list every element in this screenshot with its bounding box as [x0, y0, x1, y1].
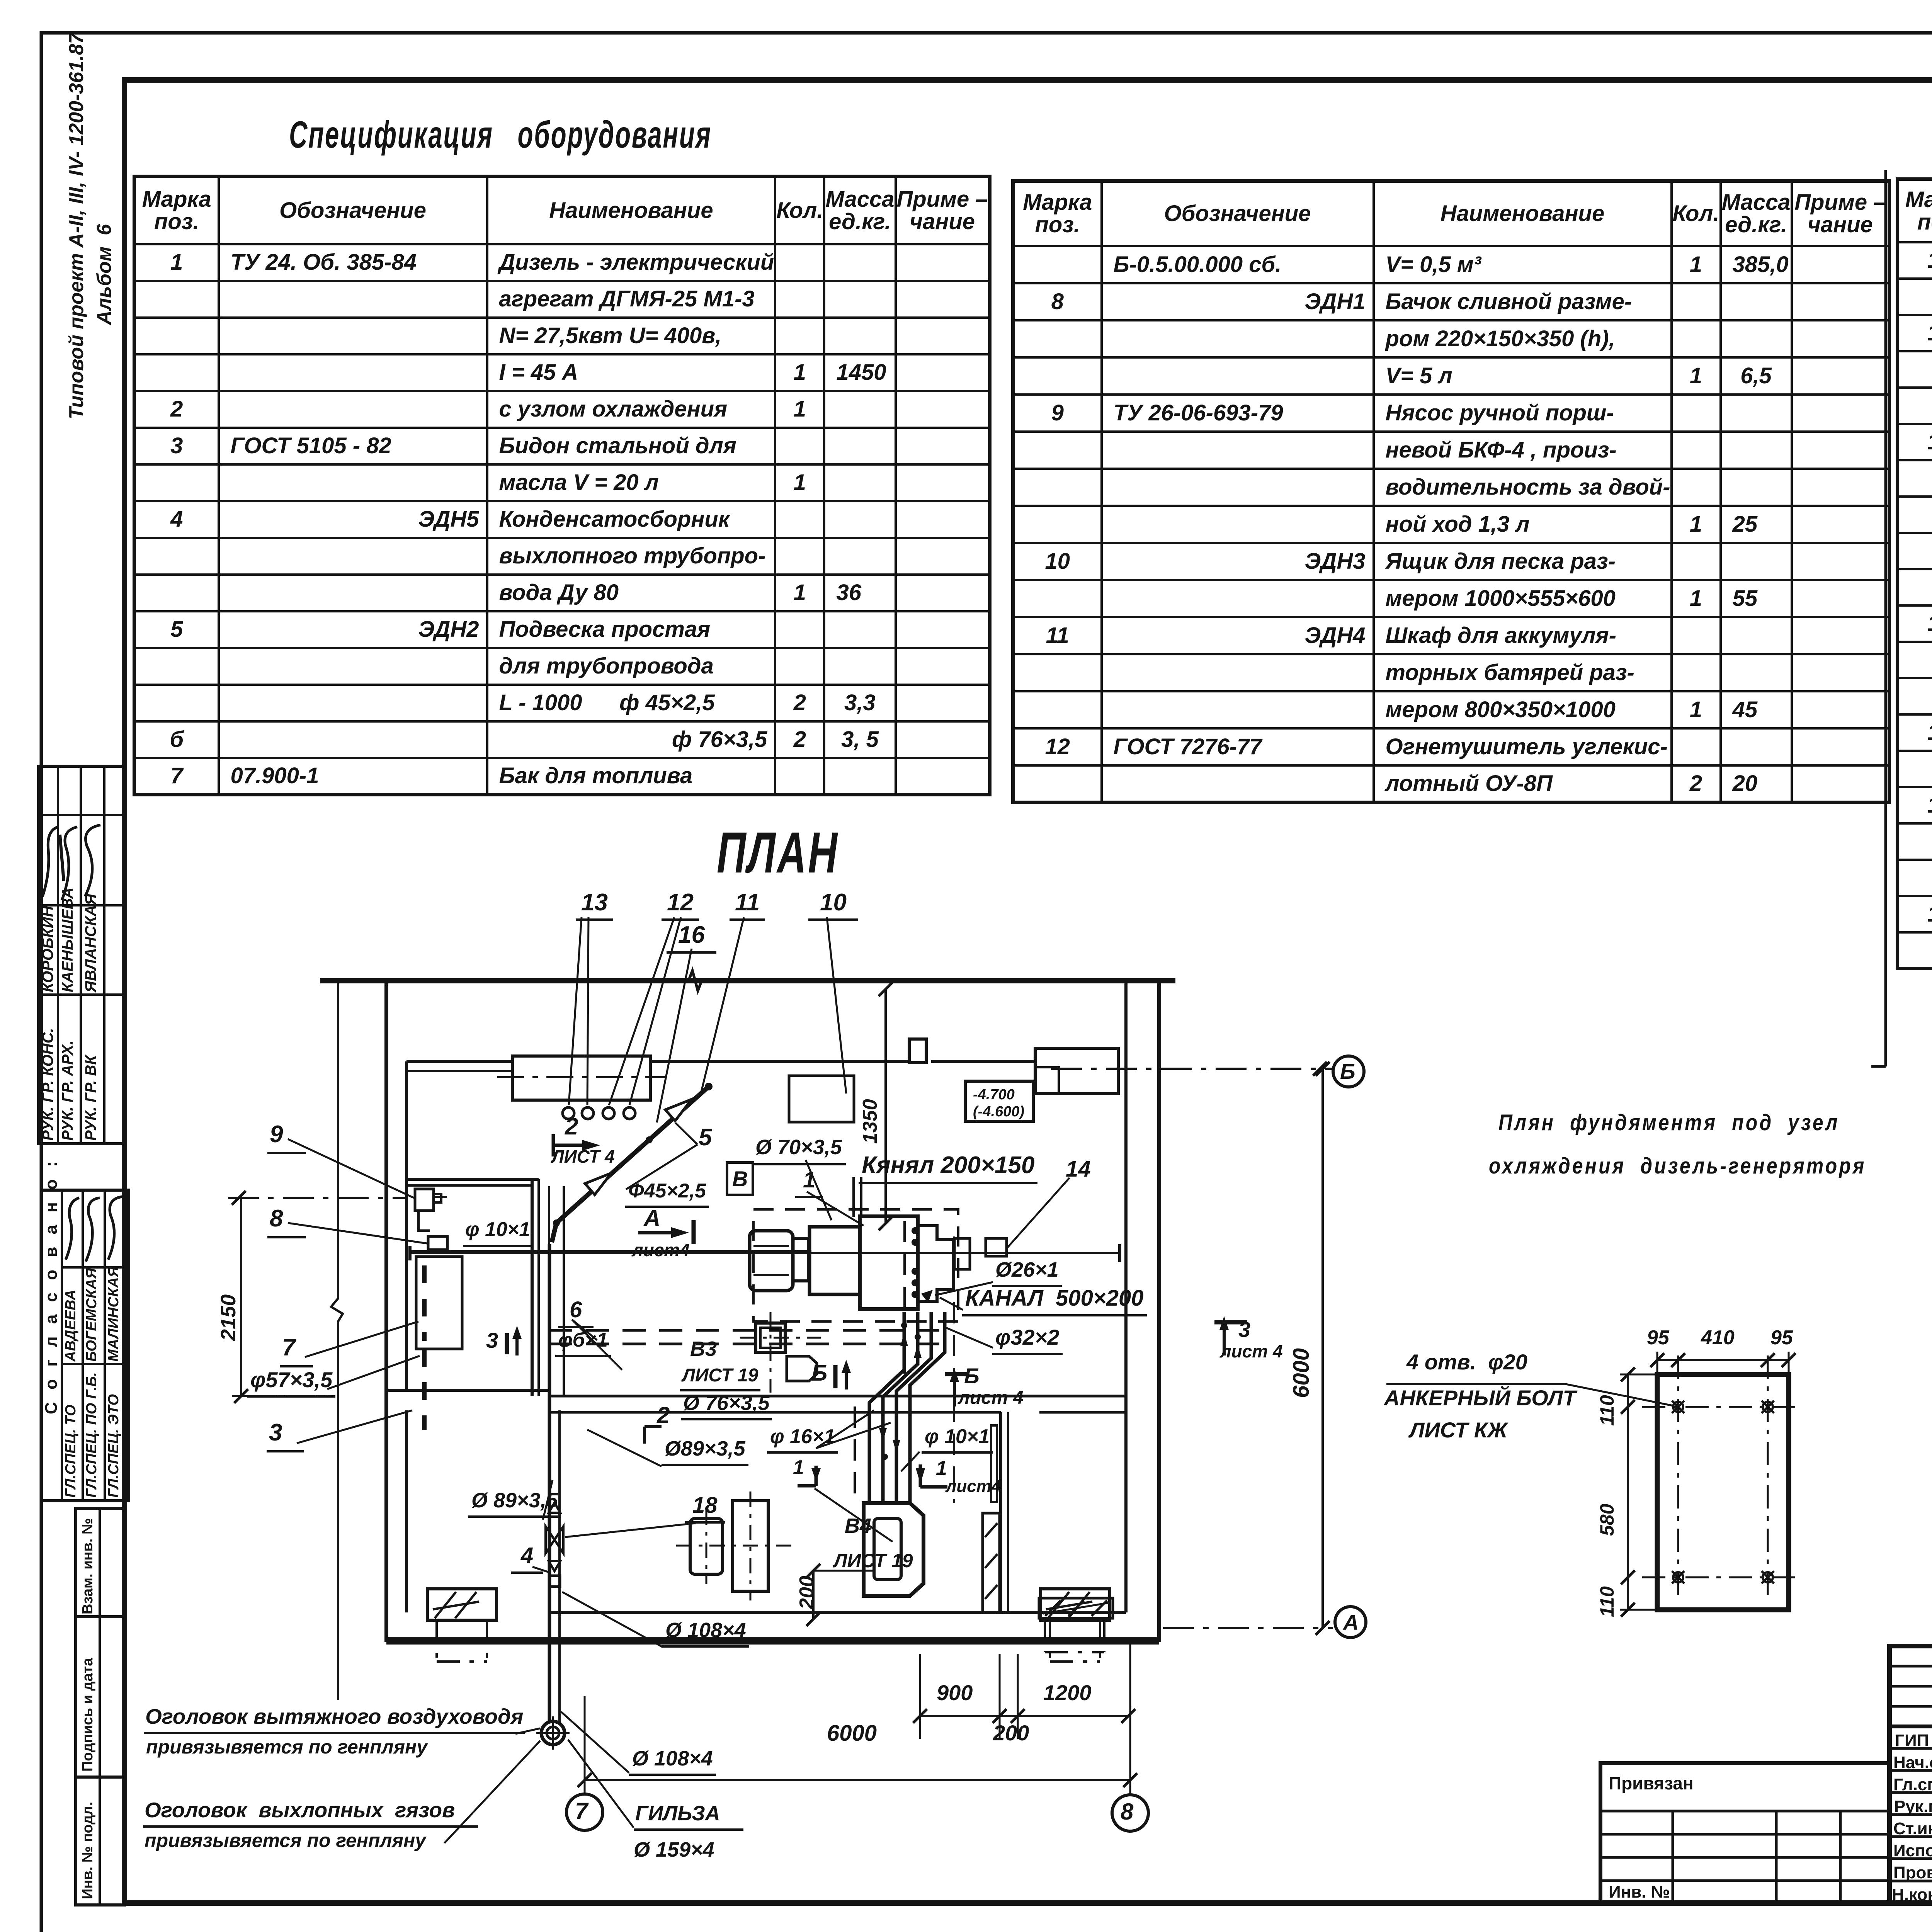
pump B3	[756, 1323, 785, 1352]
wall: top exterior	[320, 978, 1175, 983]
wall: interior horizontal	[549, 1395, 1126, 1398]
callout numbers top	[576, 889, 613, 921]
niche in top wall	[512, 1056, 650, 1100]
muffler device 2	[864, 1503, 923, 1596]
sheet title: Спецификация оборудования	[289, 113, 712, 156]
approvals table	[41, 1190, 129, 1501]
axis circle 8	[1112, 1795, 1148, 1831]
dim 200 vertical at wall	[812, 1571, 815, 1619]
leader ф70x3,5	[806, 1160, 832, 1220]
wall: left exterior	[384, 981, 388, 1642]
rotated dims	[859, 1099, 882, 1144]
flow arrows on diagonal	[665, 1099, 692, 1121]
leader 9	[288, 1139, 414, 1198]
leader callout 12	[609, 917, 674, 1105]
axis circle Б	[1333, 1056, 1364, 1087]
section marker 3 up (left)	[505, 1333, 509, 1354]
fixture 9 (hydrant)	[415, 1189, 434, 1211]
flow arrows on risers	[879, 1333, 922, 1453]
section marker Б (left)	[833, 1365, 838, 1388]
wall: left room	[406, 1178, 539, 1181]
window with hatches	[983, 1513, 1000, 1612]
axis line to circle Б	[1051, 1068, 1332, 1070]
leader 2	[815, 1488, 893, 1542]
chimney sleeve circles	[541, 1721, 565, 1745]
duct below grille	[1045, 1618, 1104, 1652]
plan title	[717, 819, 839, 886]
niche right with step	[1035, 1048, 1118, 1094]
vent niche (callout 10)	[789, 1076, 854, 1122]
leader callout 10	[827, 917, 846, 1094]
leader 3	[297, 1410, 412, 1443]
foundation dims left slab	[1647, 1326, 1669, 1349]
dimension 1350 vertical	[884, 989, 887, 1223]
elevation box -4.700	[965, 1081, 1033, 1121]
long break line left of building	[331, 981, 343, 1700]
leader 4 holes	[1566, 1384, 1673, 1406]
wall: bottom-right room partition	[999, 1412, 1002, 1612]
leaders to chimney	[515, 1728, 540, 1734]
leader callout 13	[569, 917, 582, 1105]
wall: right exterior	[1124, 981, 1128, 1612]
axis circle 7	[566, 1794, 603, 1830]
corner bracket marker 2 (lower)	[645, 1427, 662, 1444]
fixture 8 (device)	[428, 1236, 447, 1250]
section marker Б лист4 (right)	[945, 1372, 967, 1376]
leader 7	[305, 1321, 418, 1357]
foundation block left (hatched)	[427, 1589, 497, 1620]
pump B4 group	[690, 1519, 723, 1574]
consultants signature table	[39, 766, 124, 1144]
axis line left lower	[232, 1395, 332, 1397]
air grille in bottom wall	[1039, 1598, 1113, 1618]
mid labels	[463, 1218, 532, 1247]
machine centerline	[410, 1252, 1120, 1254]
specification table 3	[1896, 177, 1932, 970]
section marker 3 лист4 (far right)	[1214, 1320, 1247, 1325]
dimension 2150 vertical	[240, 1198, 242, 1396]
wall: top inner face segments	[406, 1060, 512, 1063]
exhaust diagonal pipe	[556, 1087, 709, 1223]
channel 200x150 drop	[854, 1177, 861, 1217]
leader callout 11	[701, 917, 744, 1092]
pipe bundle risers	[869, 1312, 904, 1503]
bottom labels	[629, 1747, 716, 1776]
bundle channel dashed	[855, 1221, 905, 1503]
cooling-unit foundation slab	[1657, 1374, 1789, 1610]
anchor bolts	[1672, 1401, 1774, 1583]
vent shaft walls	[549, 1186, 564, 1395]
left callouts	[267, 1121, 306, 1154]
left attachment block	[1600, 1763, 1889, 1903]
axis circle letters	[1340, 1059, 1355, 1084]
inventory boxes	[76, 1509, 124, 1905]
wall: bottom exterior	[386, 1637, 1159, 1645]
bolt axes	[1678, 1355, 1768, 1600]
dim line bottom 6000	[585, 1779, 1130, 1781]
markers and labels upper area	[565, 1113, 578, 1140]
section marker 2 лист4 top	[553, 1134, 582, 1156]
exhaust riser pipe	[548, 1244, 551, 1722]
foundation plan titles	[1498, 1110, 1840, 1136]
marker A лист4	[638, 1231, 671, 1235]
leader 1	[807, 1192, 864, 1226]
foundation block right (hatched)	[1041, 1589, 1110, 1620]
elevation box text	[973, 1087, 1024, 1120]
leader callout 16	[657, 949, 692, 1122]
leader 6	[572, 1320, 622, 1370]
leader 14 + thermometer	[1007, 1178, 1070, 1248]
leader ф57x3,5	[327, 1356, 420, 1389]
unit foundation dashed	[753, 1209, 958, 1321]
connection dots at machine	[912, 1227, 918, 1234]
tank 7 (fuel)	[416, 1257, 462, 1349]
diesel unit: motor	[750, 1231, 793, 1291]
specification table 1	[133, 175, 992, 796]
underground channel dashed	[549, 1329, 951, 1332]
specification table 2	[1011, 179, 1891, 804]
axis line left upper	[228, 1197, 406, 1199]
section marker 1 лист4 (right)	[920, 1464, 947, 1487]
break symbol on top wall	[689, 971, 702, 991]
valve on riser	[546, 1526, 563, 1553]
diesel unit: generator body	[860, 1216, 918, 1309]
leader 8	[288, 1223, 427, 1243]
lower mid labels	[657, 1402, 670, 1429]
pillar on top wall	[909, 1039, 926, 1063]
dim line left (110 580 110)	[1627, 1374, 1629, 1610]
section marker 1 (left of device2)	[798, 1466, 816, 1486]
pipe to fixtures on left	[410, 1250, 811, 1254]
rotated sidebar texts	[65, 33, 88, 419]
leaders mid-right labels	[935, 1282, 993, 1295]
axis circle А	[1335, 1607, 1366, 1638]
sheet fold line	[1884, 170, 1887, 1066]
dim line top (95 410 95)	[1657, 1359, 1789, 1361]
pipe sleeves: four circles	[563, 1107, 574, 1119]
diesel unit: right attachment	[918, 1226, 953, 1301]
dim line 900/200/1200	[920, 1715, 1128, 1717]
leader 5	[626, 1123, 697, 1189]
door leaf	[991, 1425, 997, 1502]
dim 6000 right vertical	[1321, 1069, 1324, 1628]
